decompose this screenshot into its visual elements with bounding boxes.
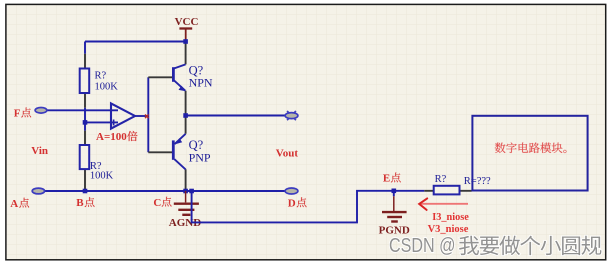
port ellipse Vout wire end: [285, 113, 298, 119]
box label: digital circuit module: [495, 143, 567, 154]
transistor Q? PNP: [173, 134, 211, 170]
node B: [76, 197, 94, 209]
noise current arrow I3: [419, 198, 468, 210]
op-amp A=100: [111, 103, 148, 128]
svg-text:PNP: PNP: [189, 151, 211, 165]
ground AGND: [174, 191, 199, 215]
port ellipse F: [35, 108, 47, 114]
svg-text:V3_niose: V3_niose: [428, 224, 469, 235]
svg-text:E: E: [383, 173, 390, 185]
svg-text:B: B: [76, 197, 84, 209]
node C: [153, 197, 171, 209]
digital module box: [472, 116, 587, 191]
junction node B: [83, 189, 88, 194]
junction VCC rail: [183, 39, 188, 44]
junction AGND tap: [189, 189, 194, 194]
svg-text:F: F: [14, 108, 21, 120]
svg-text:100K: 100K: [90, 171, 114, 182]
node E: [383, 173, 401, 185]
wire R1/R2 midpoint vertical and op-amp plus input: [85, 108, 118, 131]
power port VCC: [175, 16, 199, 41]
svg-text:D: D: [288, 197, 296, 209]
transistor Q? NPN: [173, 63, 213, 91]
node D: [288, 197, 307, 209]
wire F-point to op-amp minus input: [47, 109, 118, 111]
junction node C / PNP collector: [183, 189, 188, 194]
op-amp gain label A=100x: [96, 131, 138, 143]
no-ERC cross on Vout stub: [287, 111, 296, 120]
svg-text:R=???: R=???: [464, 176, 491, 187]
svg-text:Vin: Vin: [31, 145, 48, 157]
svg-text:R?: R?: [435, 174, 447, 185]
resistor R3 pins: [424, 190, 471, 192]
resistor R2 pins: [84, 131, 86, 191]
svg-text:NPN: NPN: [189, 75, 213, 89]
wire stub E junction to PGND: [393, 191, 395, 197]
wire AGND route down-right-up to E point and R3: [192, 191, 425, 223]
svg-text:A: A: [10, 198, 18, 210]
port ellipse A: [32, 188, 44, 194]
svg-text:Vout: Vout: [276, 147, 299, 159]
svg-text:VCC: VCC: [175, 16, 199, 28]
node F: [14, 108, 31, 120]
wire emitters midpoint to Vout ellipse: [186, 115, 286, 117]
svg-text:A=100: A=100: [96, 131, 127, 143]
svg-text:C: C: [153, 197, 161, 209]
junction R1-R2 midpoint: [83, 120, 88, 125]
svg-text:CSDN @: CSDN @: [389, 235, 456, 257]
ground PGND: [382, 196, 407, 221]
svg-text:R?: R?: [95, 70, 107, 81]
resistor R3 (horizontal, R=???): [434, 186, 460, 195]
svg-text:100K: 100K: [95, 81, 119, 92]
wire bottom rail A-B-C-D: [44, 190, 285, 192]
wire op-amp output feedback vertical to both transistor bases: [147, 77, 149, 152]
transistor vertical pins VCC-collector / emitters / collector-rail: [185, 42, 187, 192]
junction node E: [392, 189, 397, 194]
wire VCC rail: R1 top corner to VCC junction: [85, 42, 186, 54]
node A: [10, 198, 29, 210]
no-ERC cross on op-amp output: [145, 115, 149, 119]
resistor R2 100K: [80, 145, 90, 169]
port ellipse D: [285, 188, 298, 194]
resistor R1 100K: [80, 69, 90, 94]
transistor base pins: [148, 77, 172, 152]
watermark CSDN: [389, 235, 601, 257]
resistor R1 pins: [84, 54, 86, 108]
svg-text:I3_niose: I3_niose: [432, 212, 469, 223]
junction emitter midpoint: [183, 113, 188, 118]
